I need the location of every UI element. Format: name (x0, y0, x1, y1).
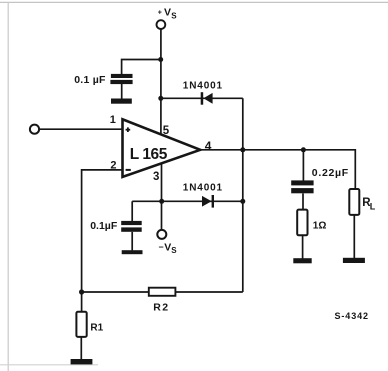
capacitor C3 0.22uF plates (291, 180, 313, 193)
svg-text:+: + (158, 9, 162, 16)
svg-text:5: 5 (163, 125, 170, 137)
ground (C1) (111, 99, 132, 104)
wire input to pin 1 (40, 128, 123, 130)
diode D1 1N4001 (top clamp) (201, 92, 213, 105)
page border bottom remnant (0, 364, 98, 366)
diode D2 1N4001 (bottom clamp) (202, 195, 214, 208)
page border top (0, 1, 388, 3)
resistor R2 (149, 288, 176, 296)
wire R1 to ground (80, 337, 82, 360)
capacitor C2 0.1uF plates (121, 221, 142, 232)
svg-text:1N4001: 1N4001 (183, 81, 223, 92)
svg-text:3: 3 (153, 171, 159, 183)
resistor R1 (76, 312, 86, 337)
svg-text:V: V (164, 6, 171, 18)
label +Vs (158, 6, 178, 20)
svg-text:S: S (171, 246, 177, 255)
wire 1 ohm resistor to ground (302, 235, 304, 258)
wire bottom diode line (132, 200, 243, 202)
wire output from op-amp to RL branch (200, 150, 355, 189)
wire node to R1 (81, 292, 83, 312)
wire pin 2 feedback down to R1/R2 node (82, 170, 123, 292)
svg-text:1Ω: 1Ω (313, 220, 327, 231)
terminal -Vs (157, 230, 166, 239)
svg-text:2: 2 (110, 159, 116, 171)
svg-text:L: L (370, 201, 376, 211)
wire pin 3 down to -Vs terminal (161, 162, 163, 230)
svg-text:4: 4 (205, 139, 212, 153)
ground (R1) (71, 359, 93, 364)
wire C3 to 1 ohm resistor (302, 193, 304, 209)
wire 0.22uF branch lead (302, 150, 304, 181)
svg-text:S: S (171, 11, 177, 20)
wire top diode line (161, 97, 243, 99)
svg-text:R2: R2 (153, 301, 169, 313)
wire C1 to ground (121, 84, 123, 99)
node pin3/bottom diode (159, 199, 164, 204)
svg-text:0.1 µF: 0.1 µF (74, 74, 106, 86)
wire from +Vs line to C1 (122, 60, 161, 75)
svg-text:0.1µF: 0.1µF (90, 220, 118, 232)
node right bus/bottom diode (240, 199, 245, 204)
ground (RL) (343, 258, 365, 263)
svg-text:S-4342: S-4342 (335, 311, 369, 321)
node output/C3 branch (301, 147, 306, 152)
terminal +Vs (157, 20, 166, 29)
op-amp - input sign (126, 169, 131, 171)
resistor R3 1 ohm (297, 210, 307, 236)
wire RL to ground (353, 215, 355, 258)
svg-text:0.22µF: 0.22µF (312, 167, 349, 179)
label -Vs (159, 241, 178, 255)
label RL (362, 197, 375, 211)
svg-text:V: V (164, 241, 171, 253)
node junction +Vs/C1 (158, 57, 163, 62)
node R1/R2/feedback (79, 289, 84, 294)
node output/right bus (240, 147, 245, 152)
ground (C2) (122, 250, 143, 254)
svg-text:1: 1 (110, 114, 116, 126)
svg-text:L 165: L 165 (130, 146, 168, 163)
svg-text:1N4001: 1N4001 (183, 183, 223, 194)
node junction +Vs/diode (158, 96, 163, 101)
ground (R3) (293, 258, 311, 263)
terminal input (30, 125, 39, 134)
wire +Vs down to op-amp pin 5 (160, 29, 162, 134)
resistor RL (349, 189, 359, 215)
page border left (7, 2, 9, 371)
wire right bus vertical (242, 98, 244, 292)
wire R2 line left segment (82, 291, 149, 293)
wire C2 to ground (131, 232, 133, 251)
capacitor C1 0.1uF plates (110, 74, 132, 84)
svg-text:R1: R1 (90, 322, 103, 333)
svg-text:–: – (159, 241, 164, 251)
op-amp + input sign (126, 127, 131, 132)
op-amp U1 L165 (123, 119, 201, 177)
wire R2 line right segment (175, 291, 242, 293)
wire from bottom diode line to C2 (131, 201, 133, 221)
